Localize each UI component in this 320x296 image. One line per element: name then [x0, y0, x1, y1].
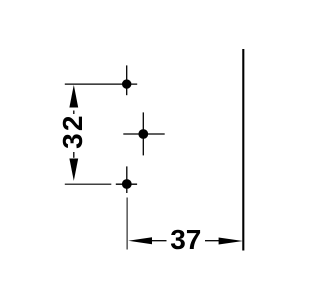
- drill hole A dot: [122, 79, 131, 88]
- svg-text:32: 32: [57, 113, 88, 149]
- dimension 32: upper dash: [73, 111, 75, 115]
- drill hole C dot: [122, 179, 132, 189]
- dimension 32: value label: [57, 113, 88, 149]
- drill hole A (top system hole) crosshair: [65, 65, 137, 95]
- dimension 37: left arrow: [128, 237, 152, 244]
- drill hole B (center screw hole) crosshair: [123, 112, 164, 155]
- drill hole C (bottom system hole) crosshair: [116, 166, 137, 193]
- dimension 37: right segment: [205, 240, 220, 242]
- svg-text:37: 37: [170, 224, 201, 255]
- panel front edge line: [242, 49, 244, 251]
- extension line below hole C (to 37 dimension): [126, 198, 128, 250]
- dimension 37: right arrow: [219, 238, 243, 245]
- dimension 32: lower dash: [73, 152, 75, 158]
- extension line from hole C (left): [65, 183, 112, 185]
- dimension 32: lower arrow: [69, 159, 78, 181]
- dimension 37: left segment: [151, 240, 167, 242]
- dimension 37: value label: [170, 224, 201, 255]
- drill hole B dot: [138, 129, 148, 139]
- dimension 32: upper arrow: [69, 85, 78, 108]
